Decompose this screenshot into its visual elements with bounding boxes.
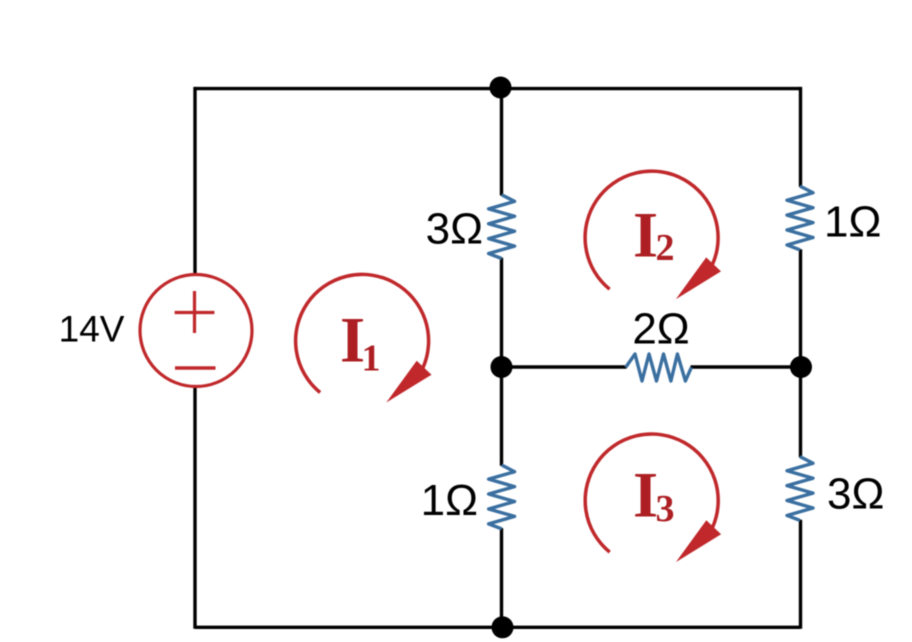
node center right: [790, 356, 812, 378]
resistor 1-ohm top right zigzag: [787, 186, 813, 250]
wire middle horizontal left of 2-ohm: [502, 365, 627, 368]
wire left lower segment: [193, 387, 196, 629]
node top middle: [490, 77, 512, 99]
wire right vertical lower: [799, 520, 802, 629]
node bottom middle: [492, 616, 514, 638]
wire middle horizontal right of 2-ohm: [691, 365, 801, 368]
resistor 1-ohm bottom middle zigzag: [489, 465, 515, 529]
svg-text:1Ω: 1Ω: [421, 476, 478, 525]
wire bottom horizontal: [195, 626, 801, 629]
svg-text:1Ω: 1Ω: [824, 198, 881, 247]
svg-text:3: 3: [656, 488, 675, 530]
svg-text:3Ω: 3Ω: [426, 205, 483, 254]
wire middle vertical lower: [500, 528, 503, 629]
svg-text:3Ω: 3Ω: [827, 470, 884, 519]
svg-text:1: 1: [362, 338, 381, 380]
mesh current arrow I2 head: [676, 257, 721, 299]
wire top horizontal: [195, 87, 801, 90]
resistor 3-ohm top middle zigzag: [489, 195, 515, 259]
node center middle: [491, 356, 513, 378]
voltage source plus sign: [175, 291, 215, 333]
wire right vertical upper: [799, 87, 802, 187]
svg-text:I: I: [633, 460, 658, 531]
svg-text:2: 2: [656, 227, 675, 269]
mesh current arrow I3 arc: [585, 434, 718, 552]
mesh current arrow I1 arc: [296, 274, 429, 392]
svg-text:14V: 14V: [59, 309, 125, 350]
voltage source minus sign: [175, 366, 216, 370]
svg-text:I: I: [633, 199, 658, 270]
voltage source V1 circle: [140, 275, 252, 387]
mesh current arrow I3 head: [676, 520, 721, 562]
mesh current arrow I2 arc: [585, 171, 718, 289]
resistor 3-ohm bottom right zigzag: [787, 457, 813, 521]
svg-text:2Ω: 2Ω: [632, 305, 689, 354]
wire left upper segment: [193, 87, 196, 275]
wire middle vertical center: [500, 258, 503, 466]
resistor 2-ohm middle horizontal zigzag: [626, 354, 692, 381]
wire middle vertical upper: [500, 89, 503, 196]
wire right vertical center: [799, 249, 802, 457]
mesh current arrow I1 head: [386, 361, 431, 403]
